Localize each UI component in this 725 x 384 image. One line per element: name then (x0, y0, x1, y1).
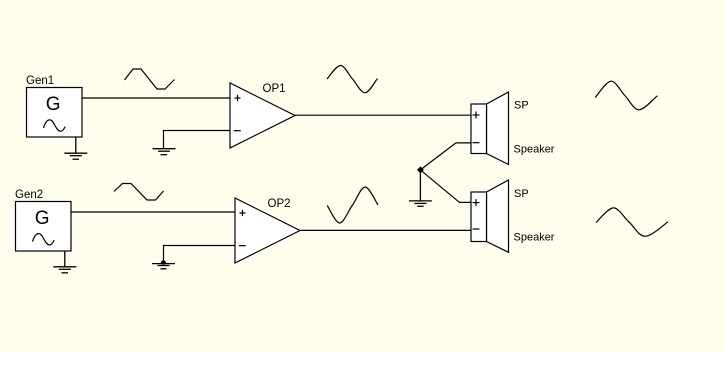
svg-text:OP1: OP1 (263, 83, 286, 95)
probe waveform right top (595, 81, 657, 110)
ground (Gen2) (53, 251, 76, 273)
wire OP2 output to SP2 - terminal (300, 229, 471, 231)
ground (OP1 - input) (153, 149, 176, 155)
wire Gen2 output to OP2 + input (71, 211, 235, 213)
svg-text:Gen1: Gen1 (26, 75, 54, 87)
generator G2 body (16, 202, 72, 252)
svg-text:SP: SP (514, 100, 529, 112)
probe waveform at OP1 output (327, 66, 378, 93)
probe waveform at Gen2 output (114, 184, 164, 201)
wire OP2 - input to ground (164, 246, 236, 263)
svg-text:G: G (35, 208, 50, 229)
svg-text:Speaker: Speaker (514, 232, 555, 244)
ground (OP2 - input) (152, 264, 175, 269)
op-amp OP2 (235, 198, 300, 263)
wire junction to SP2 + terminal (420, 170, 471, 203)
wire Gen1 output to OP1 + input (82, 97, 230, 99)
svg-text:Speaker: Speaker (514, 143, 555, 155)
speaker SP2 (471, 180, 509, 252)
speaker SP1 (471, 92, 509, 165)
generator G2 sine glyph (33, 234, 55, 245)
wire OP1 - input to ground (164, 131, 231, 149)
node junction dot (417, 166, 424, 173)
wire OP1 output to SP1 + terminal (295, 114, 471, 116)
svg-text:SP: SP (514, 188, 529, 200)
svg-text:Gen2: Gen2 (15, 189, 43, 201)
probe waveform right bottom (596, 208, 668, 236)
generator G1 body (27, 88, 83, 138)
probe waveform at OP2 output (327, 187, 378, 223)
op-amp OP1 (230, 83, 295, 148)
probe waveform at Gen1 output (125, 69, 175, 89)
generator G1 sine glyph (44, 120, 66, 131)
svg-text:OP2: OP2 (268, 198, 291, 210)
wire SP1 - terminal to junction (420, 143, 471, 170)
ground (junction) (409, 170, 432, 206)
node dot at OP2 ground (161, 260, 167, 266)
ground (Gen1) (64, 137, 87, 159)
svg-text:G: G (46, 94, 61, 115)
